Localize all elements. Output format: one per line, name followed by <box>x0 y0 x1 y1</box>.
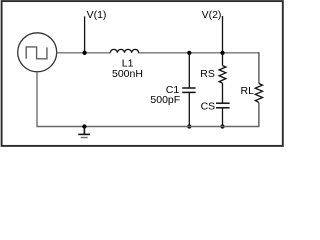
wire: RL to bottom <box>258 102 260 127</box>
wire: inductor to RL corner <box>138 52 259 54</box>
wire: source right to inductor <box>57 52 111 54</box>
inductor L1 <box>110 49 138 52</box>
junction dot V(2) <box>220 51 224 55</box>
node V(1) stem <box>84 16 86 53</box>
capacitor CS <box>216 83 230 126</box>
junction dot C1 bottom <box>187 124 191 128</box>
svg-text:RS: RS <box>200 68 215 80</box>
wire: source bottom lead <box>36 72 38 127</box>
resistor RS <box>219 53 226 83</box>
svg-text:RL: RL <box>241 85 255 97</box>
wire: bottom net <box>36 126 259 128</box>
capacitor C1 <box>182 53 195 127</box>
resistor RL <box>255 84 262 103</box>
wire: RL drop from top wire <box>258 52 260 83</box>
pulse source V1 <box>18 33 57 72</box>
junction dot V(1) <box>82 51 86 55</box>
svg-text:500nH: 500nH <box>112 68 143 80</box>
svg-text:V(2): V(2) <box>202 9 222 21</box>
junction dot ground <box>82 124 86 128</box>
border frame <box>2 1 283 146</box>
svg-text:500pF: 500pF <box>150 94 180 106</box>
svg-text:V(1): V(1) <box>87 9 107 21</box>
ground <box>78 127 90 138</box>
svg-text:CS: CS <box>201 100 216 112</box>
junction dot CS bottom <box>220 124 224 128</box>
junction dot C1 top <box>187 51 191 55</box>
node V(2) stem <box>222 16 224 53</box>
